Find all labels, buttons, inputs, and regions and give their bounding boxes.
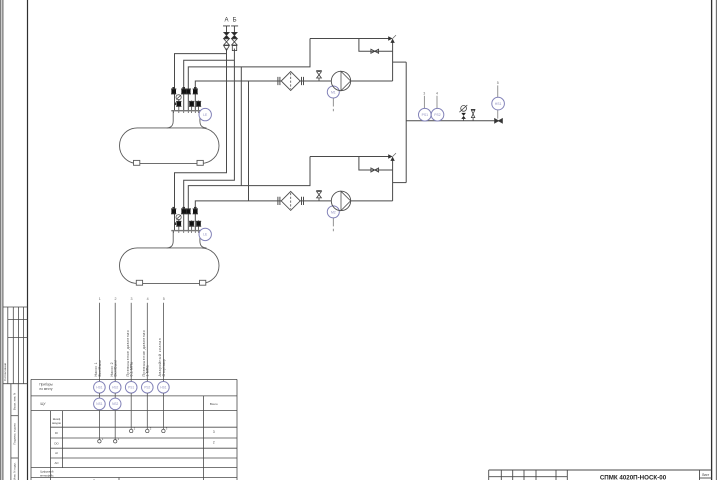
manometer with cock	[459, 105, 467, 121]
gauge stub pipe T2	[178, 219, 180, 230]
PUMP N2	[327, 191, 350, 231]
termination circles DO row	[98, 440, 117, 443]
svg-text:PS1: PS1	[422, 113, 429, 117]
svg-text:1: 1	[99, 297, 101, 301]
signal line 5	[162, 303, 164, 382]
VALVE CLUSTER tank2	[171, 207, 211, 241]
tank T1 leg left	[134, 160, 140, 165]
svg-text:Вкл/Выкл: Вкл/Выкл	[98, 360, 102, 377]
HEADER INSTRUMENTS	[419, 81, 505, 123]
svg-text:интерфейс: интерфейс	[40, 473, 54, 477]
circle HS1t	[158, 382, 170, 394]
valve B filled	[232, 32, 238, 38]
M2 signal stem	[332, 218, 334, 231]
table row line r2	[31, 410, 237, 412]
vent valve on suction 1	[316, 71, 322, 81]
tank T1 shell	[120, 128, 220, 163]
stub pipe 2	[191, 101, 193, 111]
TANK T1	[120, 111, 220, 165]
tank T2 leg left	[136, 280, 142, 285]
hand switch HS1	[492, 81, 505, 118]
svg-text:HS1: HS1	[160, 386, 166, 390]
signal line 3	[130, 303, 132, 382]
svg-text:М2: М2	[331, 210, 336, 214]
signal line 2	[114, 303, 116, 382]
signal line 4	[146, 303, 148, 382]
wire: vapor cross-connect V3	[240, 67, 242, 186]
bypass valve loop2	[371, 168, 379, 172]
svg-text:Взам. инв. N: Взам. инв. N	[13, 393, 17, 411]
wire: tank1 tap A	[175, 54, 227, 111]
svg-text:DO: DO	[54, 441, 59, 445]
fitting A triangle	[224, 46, 230, 51]
table outer right	[236, 379, 238, 480]
wire: tank2 vapor line C	[188, 157, 310, 231]
wire: tank1 suction	[195, 81, 392, 110]
termination lines	[99, 393, 163, 440]
table instrument circles row2	[94, 398, 121, 410]
circle LS2	[109, 382, 121, 394]
circle LS1	[94, 382, 106, 394]
FILL POINT A stack	[223, 18, 230, 51]
svg-text:LE: LE	[203, 113, 208, 117]
svg-text:А: А	[224, 18, 228, 24]
M1 signal stem	[332, 98, 334, 111]
relief valve loop1	[388, 35, 396, 43]
valve V1f lower	[189, 101, 194, 107]
drain valve on header	[471, 109, 475, 120]
pressure gauge on T2 manifold	[176, 215, 181, 220]
termination circles DI row	[130, 429, 166, 432]
motor M2	[327, 206, 339, 218]
svg-text:DI: DI	[55, 431, 58, 435]
svg-text:HS1: HS1	[495, 102, 502, 106]
table col line c1	[50, 411, 52, 480]
table connector col2	[114, 393, 116, 398]
svg-text:Согласовано: Согласовано	[3, 362, 7, 380]
svg-text:3: 3	[423, 92, 425, 96]
svg-text:СПМК 4020П-НОСК-00: СПМК 4020П-НОСК-00	[600, 475, 667, 480]
cap B	[231, 26, 238, 32]
valve V2c	[186, 208, 191, 214]
FILL POINT B stack	[231, 18, 238, 51]
svg-text:Подпись и дата: Подпись и дата	[13, 423, 17, 445]
svg-text:Вкл/Выкл: Вкл/Выкл	[114, 360, 118, 377]
circle PS1t	[125, 382, 137, 394]
wire: header vertical V7	[405, 62, 407, 183]
bypass valve loop1	[371, 49, 379, 53]
svg-text:2: 2	[115, 297, 117, 301]
table row line r5	[51, 447, 238, 449]
wire: loop2 jog to header	[393, 182, 407, 184]
paper right edge	[715, 0, 717, 480]
bottom row divider	[118, 478, 120, 480]
wire: loop2 top return	[310, 156, 389, 158]
VALVE CLUSTER tank1	[171, 87, 211, 121]
valve V2a	[171, 207, 176, 214]
table row line r4	[51, 437, 238, 439]
FILTER F2	[278, 191, 304, 210]
manifold plate T1	[171, 110, 201, 113]
table col line c3	[203, 396, 205, 480]
SIGNAL TABLE	[31, 379, 237, 480]
svg-text:4: 4	[147, 297, 149, 301]
wire: tank1 tap B	[184, 60, 235, 110]
table col line c2	[62, 411, 64, 468]
PUMP N1	[327, 71, 350, 111]
svg-text:Всего: Всего	[210, 402, 218, 406]
valve V2d	[193, 207, 198, 214]
svg-text:HS2: HS2	[112, 386, 118, 390]
fitting A hourglass	[224, 39, 230, 45]
stub pipe T2-3	[198, 220, 200, 230]
svg-text:М1: М1	[331, 90, 336, 94]
cap A	[223, 26, 230, 32]
pressure switch PS2	[431, 92, 444, 121]
FILTER F1	[278, 72, 304, 91]
svg-text:4: 4	[436, 92, 438, 96]
table row line r3	[51, 426, 238, 428]
wire: loop1 top return	[310, 38, 389, 40]
signal line 1	[98, 303, 100, 382]
fitting B hourglass	[232, 39, 238, 45]
valve V2g lower	[196, 221, 201, 227]
svg-text:PS2: PS2	[144, 386, 150, 390]
manifold plate T2	[171, 230, 201, 233]
table row line r1	[31, 395, 237, 397]
motor M1	[327, 86, 339, 98]
shutoff valve at header end	[495, 119, 503, 123]
wire: tank1 vapor line C	[188, 39, 310, 111]
circle PS2t	[142, 382, 154, 394]
gauge stub pipe	[178, 99, 180, 110]
table top	[31, 378, 237, 380]
svg-text:NS1: NS1	[96, 402, 102, 406]
table outer left	[30, 379, 32, 480]
pressure switch PS1	[419, 92, 432, 121]
wire: riser B vertical	[184, 49, 235, 231]
tank T2 shell	[120, 248, 220, 284]
valve V1c	[186, 89, 191, 95]
svg-text:Б: Б	[233, 18, 237, 24]
valve V2f lower	[189, 221, 194, 227]
wire: riser A vertical	[175, 49, 227, 231]
level instrument LE2	[199, 228, 211, 240]
tank T2 leg right	[200, 280, 206, 285]
wire: main header	[406, 120, 502, 122]
valve V1b	[181, 87, 186, 94]
svg-text:Шкаф: Шкаф	[53, 417, 61, 421]
stub pipe T2-2	[191, 220, 193, 230]
svg-text:Цифровой: Цифровой	[40, 469, 54, 473]
valve V2e lower	[175, 221, 182, 227]
SIGNAL LINES to table	[99, 303, 163, 382]
TITLE BLOCK	[489, 470, 712, 480]
svg-text:3: 3	[131, 297, 133, 301]
svg-text:PS1: PS1	[128, 386, 134, 390]
svg-text:5: 5	[497, 81, 499, 85]
wire: loop1 jog to header	[393, 61, 407, 63]
table row line r8	[31, 477, 237, 479]
table instrument circles row1	[94, 382, 170, 394]
pressure gauge on T1 manifold	[176, 95, 181, 100]
PIPES	[175, 39, 503, 231]
relief valve loop2	[388, 153, 396, 161]
table row line r6	[51, 457, 238, 459]
svg-text:5: 5	[163, 297, 165, 301]
wire: loop1 right vertical	[392, 42, 394, 81]
valve V1a	[171, 87, 176, 94]
pump N1 body	[331, 71, 350, 90]
svg-text:2: 2	[213, 440, 215, 444]
svg-text:1 МПа: 1 МПа	[146, 365, 150, 376]
wire: loop1 bypass	[359, 39, 393, 52]
svg-text:Лист: Лист	[702, 473, 710, 477]
fitting B square	[232, 46, 236, 51]
tank T1 leg right	[197, 160, 203, 165]
LEFT MARGIN ATTRIBUTE BLOCK	[3, 307, 28, 480]
tank T1 dome	[167, 111, 207, 128]
svg-text:LE: LE	[203, 233, 208, 237]
svg-text:Приборы: Приборы	[39, 383, 53, 387]
tank T2 dome	[167, 231, 207, 248]
stub pipe 3	[198, 101, 200, 111]
valve A filled	[224, 32, 230, 38]
svg-text:Инв. N подл.: Инв. N подл.	[13, 462, 17, 480]
svg-text:3: 3	[213, 430, 215, 434]
paper left edge	[1, 0, 3, 480]
level instrument LE1	[199, 108, 211, 120]
svg-text:PS2: PS2	[434, 113, 441, 117]
frame left border	[27, 0, 29, 480]
TANK T2	[120, 231, 220, 285]
valve V1g lower	[196, 101, 201, 107]
valve V2b	[181, 207, 186, 214]
wire: suction cross-connect V4	[248, 81, 250, 201]
table connector col1	[98, 393, 100, 398]
frame right border	[711, 0, 713, 480]
svg-text:Откр/закр: Откр/закр	[162, 359, 166, 377]
vent valve on suction 2	[316, 191, 322, 201]
valve V1e lower	[175, 101, 182, 107]
pump N2 body	[331, 191, 350, 210]
table row line r7	[31, 467, 237, 469]
svg-text:HS1: HS1	[96, 386, 102, 390]
circle NS1	[94, 398, 106, 410]
wire: tank2 suction	[195, 201, 392, 230]
svg-text:AI: AI	[55, 451, 58, 455]
svg-text:вводов: вводов	[52, 422, 61, 425]
svg-text:по месту: по месту	[39, 387, 52, 391]
wire: loop2 bypass	[359, 157, 393, 171]
wire: loop2 right vertical	[392, 161, 394, 201]
valve V1d	[193, 87, 198, 94]
svg-text:NS2: NS2	[112, 402, 118, 406]
circle NS2	[109, 398, 121, 410]
svg-text:0,1 МПа: 0,1 МПа	[130, 362, 134, 377]
